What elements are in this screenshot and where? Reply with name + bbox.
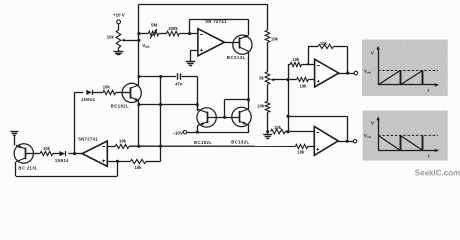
wire chain R4 to R5	[267, 43, 269, 72]
wire U3 output	[338, 141, 353, 143]
label R10 10k	[320, 41, 328, 46]
resistor R14 10k (U4 non-inverting)	[130, 159, 146, 163]
capacitor C1 47n	[178, 73, 181, 79]
wire R8 to U2 inverting input	[302, 64, 315, 66]
junction dot riser / U4 output line	[73, 152, 76, 155]
op-amp U4 SN72741	[82, 141, 107, 166]
node +10V supply label	[113, 12, 125, 17]
resistor R6 10k (mid chain)	[265, 101, 270, 112]
wire U3 feedback horizontal	[288, 116, 347, 118]
label R15 10k	[43, 146, 51, 151]
op-amp U3 comparator (bottom right)	[314, 127, 338, 156]
box1 V axis	[377, 46, 380, 85]
resistor R13 10k (Q2 base)	[103, 90, 116, 94]
svg-text:10k: 10k	[43, 146, 51, 151]
wire 5M to 100k	[159, 33, 167, 35]
watermark SeekIC.com	[415, 169, 460, 178]
box2 Vref label	[364, 133, 371, 139]
transistor Q1 BC213L	[224, 34, 252, 54]
label R1 10k	[107, 34, 115, 39]
junction dot chain / R7	[266, 130, 269, 133]
junction dot U3 output / feedback	[346, 140, 349, 143]
box1 Vref dashed line	[378, 70, 438, 72]
box1 Vref label	[364, 68, 371, 74]
label -10V	[172, 130, 182, 135]
label R12 10k	[297, 150, 305, 155]
transistor Q4 BC213L (bottom left)	[14, 144, 33, 163]
resistor R9 10k (U2 non-inverting input)	[297, 77, 309, 81]
junction dot node S / wiper	[286, 78, 289, 81]
wire +10V terminal to potentiometer R1	[118, 24, 120, 30]
transistor Q2 BC182L (top left)	[116, 83, 142, 102]
wire main Vref vertical lower part	[138, 101, 140, 146]
wire chain R6 to ground	[267, 112, 269, 134]
wire U2 feedback left segment	[308, 46, 318, 48]
wire corner to D1	[75, 92, 84, 94]
wire Q3 emitter lead	[197, 125, 199, 132]
label U1 SN 72741	[205, 19, 227, 24]
box2 t label	[428, 153, 430, 158]
wire R12 to U3 non-inverting input	[308, 146, 315, 148]
resistor R5 5k potentiometer (vertical)	[265, 72, 270, 85]
junction dot long line y146	[137, 145, 140, 148]
svg-text:V: V	[371, 120, 374, 125]
box2 V axis	[377, 116, 380, 150]
resistor R4 10k (top chain)	[265, 30, 270, 42]
ground at U1 non-inverting input	[186, 62, 196, 66]
svg-text:BC 213L: BC 213L	[18, 165, 38, 170]
waveform box 1 background	[362, 40, 448, 96]
wire U1 feedback down to Q1 emitter	[248, 19, 250, 35]
svg-text:10k: 10k	[135, 165, 143, 170]
box2 sawtooth ramp 1	[378, 135, 400, 150]
wire C1 to Q3 collector drop	[182, 77, 198, 112]
svg-text:V: V	[371, 50, 374, 55]
wire Q3 collector lead	[197, 105, 199, 110]
wire R9 to U2 non-inverting input	[308, 79, 314, 81]
wire vertical B	[160, 77, 162, 147]
svg-text:10k: 10k	[274, 125, 282, 130]
box1 sawtooth drop 2	[422, 71, 424, 85]
wire bottom rail riser	[117, 161, 119, 176]
wire Q4 collector down	[15, 162, 17, 176]
label R6 10k	[257, 104, 265, 109]
wire R1 wiper to node Vref	[125, 40, 140, 42]
wire Q5 emitter lead	[248, 125, 250, 132]
junction dot Vref / 5M line	[137, 32, 140, 35]
wire U2 feedback riser	[347, 47, 349, 73]
label R2 5M	[151, 23, 157, 28]
wire D2 to R14b	[53, 153, 60, 155]
junction feedback tap on U2 inverting line	[307, 63, 309, 65]
svg-text:SeekIC.com: SeekIC.com	[415, 169, 460, 178]
svg-text:10k: 10k	[320, 41, 328, 46]
label R3 100k	[168, 26, 178, 31]
label R13 10k	[103, 84, 111, 89]
wire emitter bus y104	[139, 104, 197, 106]
wire R14 to vertical B	[146, 161, 161, 163]
label R14 10k	[135, 165, 143, 170]
wire mirror top link	[225, 99, 249, 101]
label D1 1N914	[81, 97, 95, 102]
svg-text:47n: 47n	[175, 81, 183, 86]
wire R15 to Q4 base	[33, 153, 40, 155]
box2 V label	[371, 120, 374, 125]
wire R1 to ground	[118, 48, 120, 51]
op-amp U1 SN 72741	[198, 29, 225, 56]
junction dot U2 output / feedback	[346, 72, 349, 75]
label Q4 BC 213L	[18, 165, 38, 170]
svg-text:5k: 5k	[259, 75, 264, 80]
resistor R3 100k	[167, 31, 180, 36]
wire vertical B lower (to R14)	[160, 146, 162, 161]
terminal -10V	[183, 131, 186, 134]
svg-text:10k: 10k	[292, 57, 300, 62]
node Vref label	[142, 43, 150, 49]
svg-text:10k: 10k	[103, 84, 111, 89]
svg-text:1N914: 1N914	[81, 97, 95, 102]
junction dot cap line / vertical B	[159, 75, 162, 78]
junction dot riser / U4 non-inverting line	[116, 160, 119, 163]
box1 sawtooth drop 1	[400, 71, 402, 85]
label C1 47n	[175, 81, 183, 86]
svg-text:1N914: 1N914	[55, 158, 69, 163]
svg-text:10k: 10k	[300, 84, 308, 89]
label R11 10k	[119, 138, 127, 143]
wire U1 feedback top	[190, 19, 249, 21]
box2 Vref dashed line	[378, 134, 438, 136]
R5 wiper arrow	[270, 78, 288, 81]
wire U2 output	[339, 73, 355, 75]
wire bottom rail	[16, 176, 118, 178]
wire node S vertical	[288, 64, 290, 132]
svg-text:10k: 10k	[119, 138, 127, 143]
junction dot U1 inverting node	[188, 32, 191, 35]
label Q3 BC182L	[194, 140, 212, 145]
diode D2 1N914	[60, 151, 66, 156]
box1 V label	[371, 50, 374, 55]
ground below R1	[113, 52, 123, 55]
wire 100k to U1 inverting input	[179, 33, 198, 35]
terminal U2 output	[354, 71, 358, 75]
junction dot node S / comparator2 feedback	[286, 115, 289, 118]
R1 wiper arrow	[121, 39, 125, 42]
junction dot emitter line y104	[137, 103, 140, 106]
ground above Q4	[10, 132, 18, 136]
wire node S to R8	[288, 64, 290, 66]
resistor R10 10k (U2 feedback)	[318, 44, 334, 48]
op-amp U2 comparator (top right)	[315, 59, 339, 87]
svg-text:10k: 10k	[257, 104, 265, 109]
wire chain R5 to R6	[267, 84, 269, 101]
wire base bus riser	[224, 100, 226, 118]
diode D1 1N914	[86, 90, 92, 95]
resistor R8 10k (U2 inverting input)	[290, 62, 301, 66]
transistor Q3 BC182L (mirror left)	[197, 108, 216, 127]
wire Vref to 5M pot	[139, 33, 149, 35]
box1 sawtooth ramp 2	[400, 71, 422, 85]
label Q5 BC182L	[231, 140, 249, 145]
box2 t axis	[378, 149, 439, 152]
svg-text:ref: ref	[367, 70, 371, 74]
wire U4 inverting stub	[107, 146, 115, 148]
svg-text:+10 V: +10 V	[113, 12, 125, 17]
svg-text:10k: 10k	[297, 150, 305, 155]
svg-text:BC182L: BC182L	[231, 140, 249, 145]
label R4 10k	[271, 36, 279, 41]
svg-text:10k: 10k	[107, 34, 115, 39]
label R7 10k	[274, 125, 282, 130]
wire U2 feedback down to inverting line	[308, 47, 310, 65]
wire main Vref vertical (top rail drop to Q-BC182L collector)	[138, 4, 140, 85]
wire -10V rail	[187, 132, 249, 134]
label U4 SN72741	[78, 137, 98, 142]
resistor R1 10k potentiometer (vertical)	[116, 30, 121, 47]
box1 t label	[427, 88, 429, 93]
svg-text:SN72741: SN72741	[78, 137, 98, 142]
wire Vref to C1	[139, 76, 176, 78]
wire D1 to R13	[92, 92, 103, 94]
wire U1 non-inverting stub	[190, 50, 198, 61]
terminal +10V	[117, 20, 121, 24]
junction dot y104 / Q3 collector	[196, 103, 199, 106]
wire top rail	[139, 4, 268, 6]
junction dot base bus riser	[223, 116, 226, 119]
junction dot wiper / Vref line	[137, 39, 140, 42]
junction dot mirror top / Q1 collector	[247, 98, 250, 101]
wire Q1 collector down	[248, 51, 250, 99]
box1 t axis	[378, 83, 439, 86]
wire base bus Q3-Q5	[207, 117, 239, 119]
wire long line	[129, 145, 296, 147]
svg-text:−10V: −10V	[172, 130, 182, 135]
ground below chain	[263, 135, 272, 139]
wire top rail right drop	[267, 4, 269, 30]
label R9 10k	[300, 84, 308, 89]
label R5 5k	[259, 75, 264, 80]
svg-text:BC213L: BC213L	[227, 55, 246, 60]
wire node S to R9	[288, 79, 297, 81]
wire U4 output	[68, 153, 82, 155]
box1 sawtooth ramp 1	[378, 71, 400, 85]
wire U3 feedback drop	[347, 116, 349, 141]
wire R7 to node S	[285, 131, 288, 133]
label Q1 BC213L	[227, 55, 246, 60]
svg-text:5M: 5M	[151, 23, 157, 28]
junction dot y104 / vertical B	[159, 103, 162, 106]
resistor R15 10k (Q4 base)	[40, 151, 53, 155]
svg-text:ref: ref	[367, 135, 371, 139]
label R8 10k	[292, 57, 300, 62]
terminal U3 output	[353, 140, 356, 143]
label Q2 BC182L	[111, 104, 129, 109]
R2 wiper arrow diagonal	[150, 29, 157, 39]
box2 sawtooth rise 1	[400, 135, 402, 150]
resistor R12 10k (U3 non-inverting)	[295, 144, 307, 148]
svg-text:10k: 10k	[271, 36, 279, 41]
box2 sawtooth rise 2	[422, 135, 424, 150]
wire Q5 collector lead	[248, 100, 250, 109]
wire U2 feedback top right segment	[334, 46, 348, 48]
wire Q4 emitter to ground	[14, 136, 16, 145]
resistor R2 5M potentiometer (horizontal)	[148, 31, 158, 36]
transistor Q5 BC182L (mirror right)	[232, 107, 251, 126]
svg-text:100k: 100k	[168, 26, 178, 31]
label D2 1N914	[55, 158, 69, 163]
wire U1 feedback riser	[189, 19, 191, 33]
junction dot Vref / capacitor line	[137, 75, 140, 78]
box2 sawtooth ramp 2	[400, 135, 422, 150]
svg-text:BC182L: BC182L	[194, 140, 212, 145]
resistor R11 10k (long line left)	[115, 144, 129, 148]
waveform box 2 background	[363, 111, 448, 161]
junction dot -10V / Q3 emitter	[196, 130, 199, 133]
wire D1 corner riser	[74, 92, 76, 153]
junction dot long line / vertical B	[159, 145, 162, 148]
wire node S to U3 inverting input	[288, 131, 314, 133]
svg-text:BC182L: BC182L	[111, 104, 129, 109]
junction dot node S / comparator2 inverting	[286, 130, 289, 133]
resistor R7 10k (horizontal, to ground chain)	[271, 129, 286, 134]
wire U4 non-inverting stub	[107, 161, 130, 163]
